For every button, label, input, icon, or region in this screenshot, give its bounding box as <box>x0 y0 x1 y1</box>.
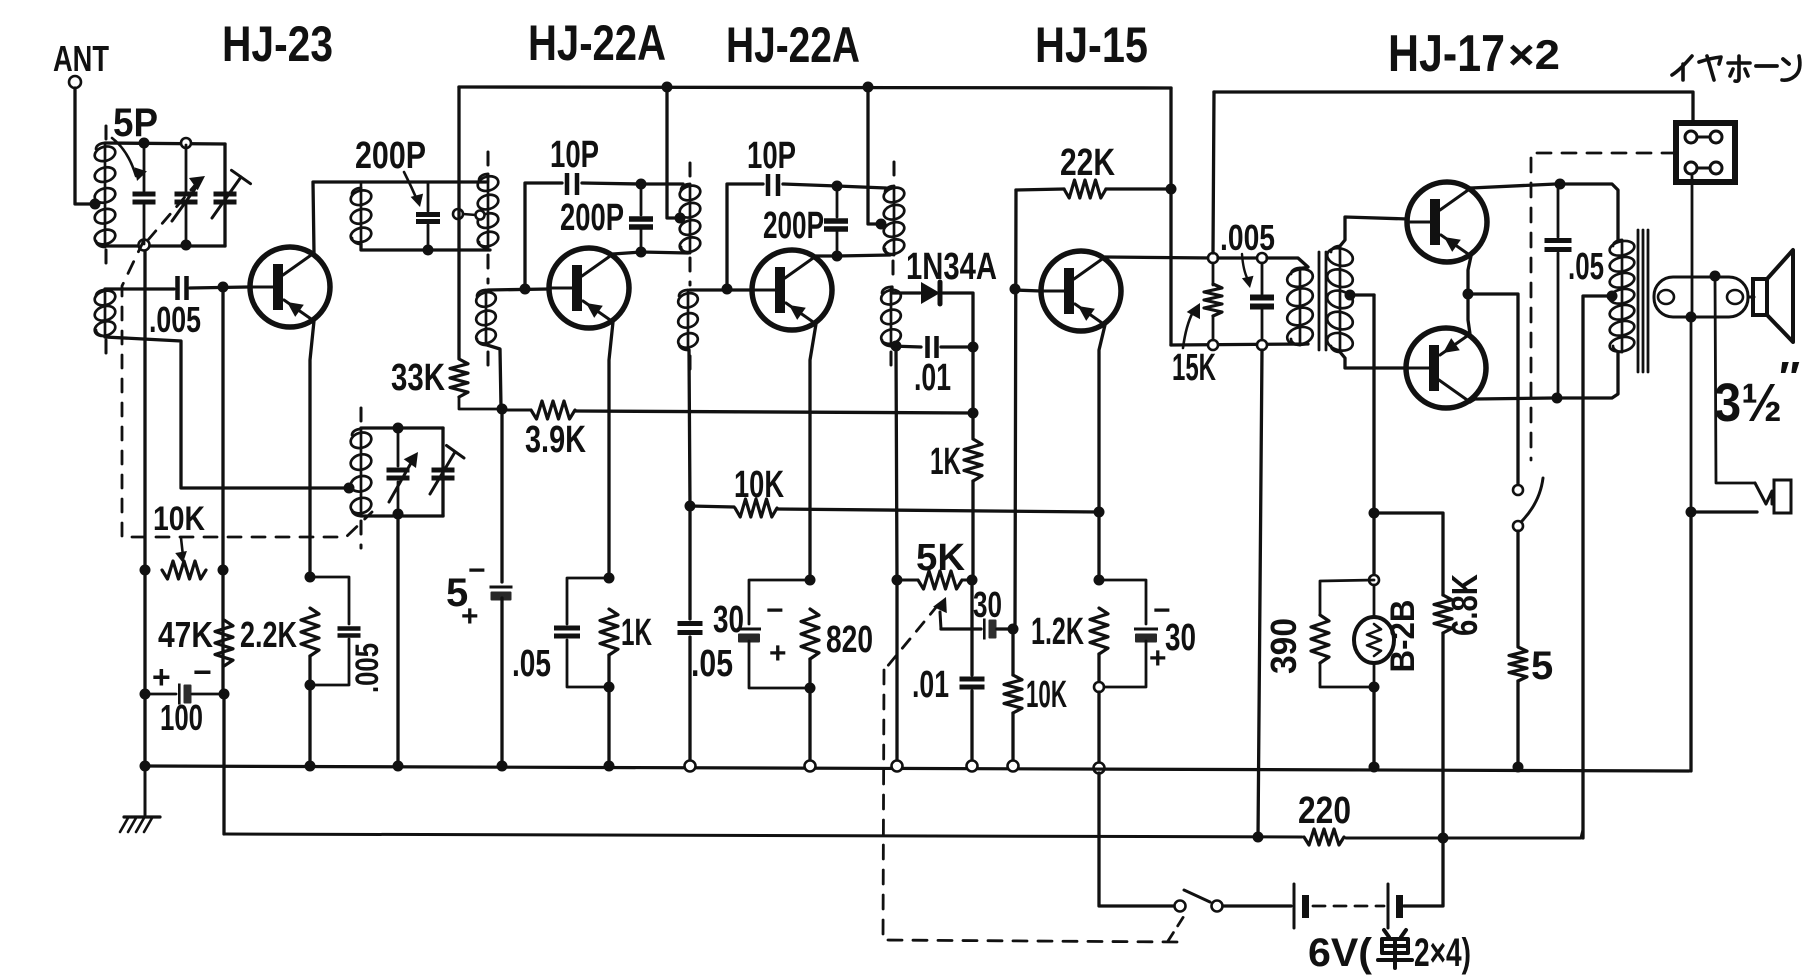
battery cell 2 <box>1388 884 1403 928</box>
wire 1.2K to rail <box>1097 692 1100 762</box>
antenna coil L1 secondary <box>93 288 117 338</box>
core T4 line a <box>1318 252 1321 350</box>
wire emitter net <box>1097 512 1100 580</box>
wire antenna lead <box>75 88 90 204</box>
trimmer capacitor TC1 <box>214 192 237 205</box>
svg-text:.005: .005 <box>349 643 385 693</box>
transistor Q5 HJ-17 upper <box>1407 182 1487 262</box>
resistor 10K AGC line <box>735 499 777 517</box>
wire top bus <box>459 87 1171 88</box>
svg-text:+: + <box>769 637 787 670</box>
wire tap bias drop <box>1372 295 1375 578</box>
label .005 coupling <box>149 299 201 340</box>
resistor 3.9K <box>531 401 575 419</box>
battery cell 1 <box>1294 884 1309 928</box>
capacitor .005 damper <box>1250 295 1274 310</box>
junction 1.2K top <box>1094 575 1105 586</box>
junction tank top b <box>181 138 191 148</box>
label earphone katakana text <box>1672 56 1800 81</box>
label .05 bypass 1 <box>512 643 551 685</box>
resistor 2.2K <box>301 608 319 656</box>
junction bias 6.8K tee <box>1369 508 1380 519</box>
junction bus T2 feed <box>662 82 673 93</box>
wire Q1 collector riser <box>313 182 486 253</box>
wire TC1 slash <box>212 177 241 218</box>
wire .05-3 top lead <box>1557 184 1560 237</box>
wire TC1 tick <box>232 170 251 183</box>
svg-text:10K: 10K <box>153 500 205 538</box>
wire collector top to T5 <box>1560 184 1618 240</box>
svg-text:200P: 200P <box>763 205 824 247</box>
ground <box>120 771 160 832</box>
switch S2 contact a <box>1175 901 1186 912</box>
wire Q3 collector <box>816 254 837 257</box>
wire VC2 body <box>397 430 400 466</box>
label 30 bypass 2 <box>1165 617 1196 659</box>
node rail x810 <box>805 761 816 772</box>
speaker 3.5 inch <box>1753 250 1793 342</box>
transformer T2 base winding <box>676 290 699 350</box>
resistor 390 <box>1311 615 1329 663</box>
jack contact br <box>1710 162 1722 174</box>
wire Q6 emitter <box>1468 294 1470 334</box>
core dash T2 bottom <box>689 356 692 376</box>
svg-text:.05: .05 <box>512 643 551 685</box>
svg-text:30: 30 <box>973 584 1002 625</box>
svg-text:−: − <box>193 654 212 690</box>
thermistor B-2B <box>1354 617 1394 663</box>
wire .05-3 bottom lead <box>1557 253 1560 398</box>
label 6.8K rotated <box>1444 574 1485 636</box>
wire 200P-1 top lead <box>427 182 430 211</box>
capacitor 5P <box>133 192 156 205</box>
node rail x690 <box>685 761 696 772</box>
transformer T5 primary <box>1608 239 1635 354</box>
junction bus T3 feed <box>863 82 874 93</box>
core dash T2 mid <box>689 258 692 285</box>
wire AGC line b <box>777 509 1099 512</box>
junction Q4 base <box>1010 284 1021 295</box>
label title HJ-22A (1st IF) <box>528 15 666 71</box>
label 10P 2 <box>747 135 796 177</box>
resistor 15K variable <box>1204 284 1222 316</box>
label 1.2K <box>1031 611 1084 653</box>
resistor 1.2K <box>1090 608 1108 654</box>
arrow 10K pointer <box>175 538 187 563</box>
label 820 <box>826 619 873 661</box>
svg-text:+: + <box>152 659 171 695</box>
wire B- rail b <box>1346 830 1583 838</box>
wire 100uF row <box>145 693 176 696</box>
resistor 10K base <box>1004 675 1022 713</box>
junction tank bottom b <box>181 240 192 251</box>
junction 100uF left <box>140 689 151 700</box>
wire .01 to node <box>941 345 973 348</box>
wire collector to T2 bottom <box>641 252 688 253</box>
wire 100uF row b <box>192 693 224 696</box>
capacitor .005 coupling <box>175 276 189 300</box>
junction speaker return <box>1686 507 1697 518</box>
label .01 detector <box>914 357 951 399</box>
wire T4 primary bottom hook <box>1300 344 1308 345</box>
wire VC2 body b <box>397 482 400 513</box>
svg-text:30: 30 <box>713 599 744 641</box>
svg-text:HJ-22A: HJ-22A <box>528 15 666 71</box>
label - 30uF2 <box>1153 594 1171 627</box>
wire 200P-2 bottom lead <box>640 230 643 252</box>
wire L1 secondary top to C2 <box>105 287 174 290</box>
label title x2 <box>1508 31 1560 78</box>
wire 200P-1 bottom lead <box>427 225 430 250</box>
node rail x310 <box>305 761 316 772</box>
wire 22K lead b <box>1106 187 1171 190</box>
transformer T1 base winding <box>474 290 497 346</box>
svg-text:+: + <box>461 600 479 633</box>
wire battery dashed <box>1313 905 1384 908</box>
wire switch to 5ohm <box>1516 531 1519 646</box>
node rail x972 <box>967 761 978 772</box>
label .05 output <box>1568 246 1604 288</box>
core dash L2 top <box>360 408 363 424</box>
label 5 ohm <box>1531 644 1553 688</box>
label 10K base <box>1026 674 1067 716</box>
svg-text:.05: .05 <box>691 643 733 685</box>
wire AGC line a <box>690 506 734 507</box>
junction secondary top <box>1710 271 1721 282</box>
junction bias bottom <box>1369 682 1380 693</box>
svg-text:1N34A: 1N34A <box>906 246 997 288</box>
svg-text:″: ″ <box>1779 353 1800 402</box>
junction 6.8K at rail <box>1438 833 1449 844</box>
variable capacitor VC1 tuning <box>175 192 198 205</box>
node rail x145 <box>140 761 151 772</box>
wire Q4 collector <box>1105 257 1213 258</box>
svg-text:.01: .01 <box>914 357 951 399</box>
wire x690 to .05 <box>688 506 691 619</box>
label B-2B rotated <box>1384 600 1422 673</box>
oscillator coil L2 <box>349 429 373 516</box>
svg-text:22K: 22K <box>1060 142 1115 184</box>
wire T1 cell top <box>360 182 363 188</box>
capacitor .05 bypass 1 <box>554 626 580 639</box>
label .005 damper <box>1220 217 1275 258</box>
wire 30uF-1 bottom <box>749 641 810 688</box>
label 5K <box>916 537 966 579</box>
svg-text:5: 5 <box>1531 644 1553 688</box>
label - of 5uF <box>468 554 486 587</box>
transistor Q4 HJ-15 <box>1041 251 1121 331</box>
label 5uF <box>446 571 468 615</box>
wire .005-3 top lead <box>1261 263 1264 294</box>
arrow 5K wiper <box>933 597 947 629</box>
switch S2 lever <box>1184 890 1210 902</box>
wire jack link <box>1697 136 1710 139</box>
svg-text:820: 820 <box>826 619 873 661</box>
wire 2.2K bottom <box>308 656 311 766</box>
core dash T1 mid <box>487 255 490 283</box>
label 3 1/2 <box>1714 373 1782 433</box>
wire collector rail <box>1218 256 1262 259</box>
label 1N34A <box>906 246 997 288</box>
transformer T1 secondary <box>476 174 500 249</box>
tap circle T1 a <box>453 209 463 219</box>
svg-text:B-2B: B-2B <box>1384 600 1422 673</box>
svg-text:10K: 10K <box>1026 674 1067 716</box>
resistor 22K <box>1064 180 1106 198</box>
label .005 rotated <box>349 643 385 693</box>
resistor 6.8K <box>1434 595 1452 633</box>
wire C2 to Q1 base <box>190 287 248 288</box>
resistor 5K volume <box>918 571 962 589</box>
wire Q2 collector <box>613 252 641 254</box>
svg-text:47K: 47K <box>158 614 213 655</box>
wire 1K det bottom <box>971 481 974 580</box>
svg-text:.005: .005 <box>149 299 201 340</box>
svg-text:6V(: 6V( <box>1308 931 1373 975</box>
junction Q2 collector node <box>636 247 647 258</box>
wire Q4 base line <box>1015 190 1016 629</box>
svg-text:200P: 200P <box>355 135 426 177</box>
label earphone katakana <box>0 0 1 1</box>
junction antenna tap on L1 <box>90 199 101 210</box>
junction Q1 emitter net top <box>305 572 316 583</box>
node rail x897 <box>892 761 903 772</box>
core T4 line b <box>1325 252 1328 350</box>
svg-text:390: 390 <box>1263 618 1304 674</box>
wire tank bottom to bottom rail <box>143 251 146 766</box>
arrow 5P pointer <box>112 138 147 181</box>
wire volume row b <box>962 579 972 582</box>
label 2.2K <box>240 614 297 655</box>
junction AGC line left <box>685 501 696 512</box>
tap dot T5 primary <box>1607 291 1618 302</box>
wire .05 bypass top <box>567 578 609 624</box>
svg-text:200P: 200P <box>560 197 624 239</box>
svg-text:ANT: ANT <box>53 38 109 79</box>
wire Q1 base bias line <box>221 292 224 694</box>
wire Q3 neutralizing riser <box>727 184 763 289</box>
wire bus2 left drop <box>1213 92 1214 253</box>
wire 10P-1 to junction <box>582 183 641 184</box>
junction 200P-3 top <box>832 181 843 192</box>
wire 10K base to rail <box>1011 713 1014 766</box>
svg-text:2×4): 2×4) <box>1414 931 1471 975</box>
wire .01 af to rail <box>970 691 973 766</box>
label 5P <box>113 101 158 145</box>
capacitor 5uF electrolytic <box>490 586 513 601</box>
junction Q1 base node <box>218 282 229 293</box>
wire emitters to switch <box>1468 294 1518 485</box>
label 3.9K <box>525 419 586 461</box>
node rail x609 <box>604 761 615 772</box>
wire 390 bottom <box>1320 663 1374 687</box>
junction 10K right <box>218 565 229 576</box>
junction Q2 base node <box>520 284 531 295</box>
wire B-2B top lead <box>1373 585 1376 616</box>
wire diode to corner <box>943 293 973 345</box>
wire 30uF-3 bottom <box>1104 641 1146 687</box>
wire TC2 top lead <box>442 430 445 466</box>
node driver rail b <box>1257 340 1267 350</box>
wire antenna tank top <box>105 143 225 144</box>
wire 5ohm to rail <box>1516 681 1519 768</box>
wire speaker return <box>1689 512 1692 771</box>
wire T1 secondary top hook <box>487 174 490 182</box>
wire AVC line b <box>575 411 973 413</box>
wire ground bus <box>145 766 1689 771</box>
wire TC1 top lead <box>224 145 227 191</box>
output plug symbol <box>1755 480 1791 513</box>
wire B- rail <box>224 834 1302 837</box>
wire T4 primary top hook <box>1300 267 1308 268</box>
wire 22K lead a <box>1016 189 1064 190</box>
wire 5uF to bottom rail <box>500 598 503 766</box>
wire T2 base winding bottom <box>689 350 690 506</box>
label ANT <box>53 38 109 79</box>
wire .005 bypass top <box>310 577 349 624</box>
svg-text:15K: 15K <box>1172 347 1216 389</box>
core dash T2 top <box>689 163 692 179</box>
arrow 200P pointer <box>404 172 423 207</box>
core dash L1 top <box>105 126 108 141</box>
svg-text:1.2K: 1.2K <box>1031 611 1084 653</box>
wire 15K bottom lead <box>1212 316 1215 340</box>
wire 30uF-3 top <box>1099 580 1146 624</box>
wire Q2 neutralizing riser <box>525 183 562 289</box>
resistor 1K detector <box>964 439 982 481</box>
svg-text:HJ-17: HJ-17 <box>1388 25 1505 83</box>
wire .005 bypass bottom <box>310 639 349 685</box>
wire TC2 slash <box>430 452 455 494</box>
wire T4 tap <box>1350 293 1374 296</box>
wire jack lead left <box>1691 174 1694 317</box>
label 10K <box>153 500 205 538</box>
node rail x1013 <box>1008 761 1019 772</box>
svg-text:.01: .01 <box>912 664 949 706</box>
junction detector out a <box>968 342 979 353</box>
wire Q2 emitter down <box>609 322 613 578</box>
wire L1 secondary bottom <box>105 337 344 488</box>
label 220 <box>1298 790 1351 832</box>
wire Q4 base lead <box>1015 290 1041 291</box>
core T5 line c <box>1647 230 1650 372</box>
svg-text:2.2K: 2.2K <box>240 614 297 655</box>
capacitor 30uF bypass 1 <box>737 628 761 643</box>
wire bias to 6.8K <box>1374 513 1443 595</box>
wire 200P-3 bottom lead <box>836 232 839 256</box>
wire Q6 collector <box>1470 398 1553 402</box>
wire 5P cap bottom lead <box>143 205 146 244</box>
node rail x502 <box>497 761 508 772</box>
wire bus drop x1171 <box>1169 88 1172 345</box>
core dash L1 mid <box>105 250 108 263</box>
junction volume top right <box>967 575 978 586</box>
capacitor .005 bypass <box>338 626 361 638</box>
resistor 220 <box>1304 829 1344 845</box>
jack contact bl <box>1685 162 1697 174</box>
arrow VC2 shaft <box>389 452 418 502</box>
junction 1.2K bottom <box>1094 682 1104 692</box>
junction 1K bottom <box>604 682 615 693</box>
junction detector bottom <box>891 341 902 352</box>
capacitor .01 af filter <box>960 677 985 690</box>
junction det out to AVC <box>968 408 979 419</box>
wire driver rail to B- <box>1258 350 1262 838</box>
label + of 5uF <box>461 600 479 633</box>
wire antenna tank right side <box>223 144 226 246</box>
junction Q3 collector node <box>832 251 843 262</box>
transformer T3 primary <box>882 185 906 256</box>
wire det filter drop <box>970 582 973 675</box>
junction 100uF right <box>219 689 230 700</box>
wire volume gang dashed a <box>886 605 938 668</box>
capacitor .01 detector <box>925 336 939 358</box>
label 6V battery <box>1308 931 1471 975</box>
wire osc tank right side <box>441 428 444 516</box>
label 100 <box>160 697 203 738</box>
capacitor 10P neutralizing 2 <box>766 174 781 196</box>
wire .05 series to rail <box>688 637 691 766</box>
wire bias line to B- rail <box>222 694 225 834</box>
label 10P 1 <box>550 134 599 176</box>
capacitor .05 output <box>1545 238 1572 252</box>
wire wiper to 30uF <box>941 627 981 630</box>
label 200P first IF <box>560 197 624 239</box>
capacitor .05 series <box>678 621 703 635</box>
wire Q4 emitter down <box>1099 325 1105 512</box>
svg-text:10P: 10P <box>550 134 599 176</box>
junction 2.2K bottom <box>305 680 316 691</box>
wire AVC line <box>507 409 531 412</box>
label 1K detector <box>930 441 961 483</box>
svg-text:.005: .005 <box>1220 217 1275 258</box>
junction .05 bottom <box>1552 393 1563 404</box>
wire capsule top to plug <box>1715 276 1755 483</box>
tap circle T1 b <box>476 211 485 220</box>
wire jack lead left lower <box>1690 317 1693 512</box>
jack contact tl <box>1685 131 1697 143</box>
capacitor 30uF coupling <box>983 619 997 640</box>
wire collector bottom to T5 <box>1557 352 1618 398</box>
wire T1 cell bottom wire <box>361 244 490 250</box>
junction bias at bottom rail <box>1369 762 1380 773</box>
label 15K <box>1172 347 1216 389</box>
svg-text:1K: 1K <box>930 441 961 483</box>
node driver rail a <box>1208 340 1218 350</box>
core dash T3 top <box>893 162 896 180</box>
svg-text:×2: ×2 <box>1508 31 1560 78</box>
wire base line lower <box>1011 629 1014 675</box>
resistor 10K AGC <box>162 561 206 579</box>
junction volume top left <box>892 575 903 586</box>
wire 15K top lead <box>1212 263 1215 285</box>
resistor 47K <box>215 620 233 666</box>
label 390 rotated <box>1263 618 1304 674</box>
label 30 bypass 1 <box>713 599 744 641</box>
capacitor 100uF electrolytic <box>178 684 192 705</box>
wire T2 base winding top <box>690 288 752 291</box>
transistor Q3 HJ-22A second IF <box>752 250 832 330</box>
transformer T4 primary <box>1285 267 1314 348</box>
junction .05 top <box>1555 179 1566 190</box>
svg-text:33K: 33K <box>391 357 445 399</box>
wire T3 feed drop <box>868 87 876 224</box>
label 30 coupling <box>973 584 1002 625</box>
node collector rail a <box>1208 253 1218 263</box>
wire .05 bypass bottom <box>567 640 609 687</box>
tap dot T4 secondary <box>1345 290 1356 301</box>
junction AGC to emitter <box>1094 507 1105 518</box>
